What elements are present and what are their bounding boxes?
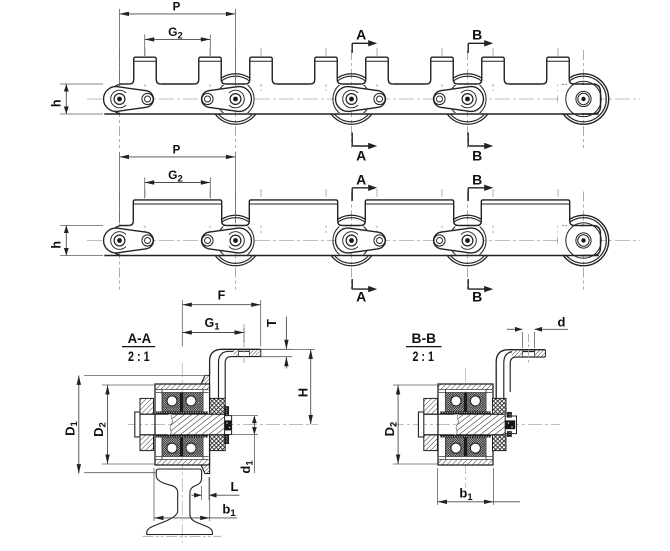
chain 2 left plate end cap <box>109 226 121 256</box>
chain 1 end roller (full circles) <box>558 74 608 124</box>
dimension G2 <box>145 182 211 184</box>
B-B left spacer <box>424 398 438 414</box>
A-A bracket tab end <box>260 349 262 356</box>
roller inside plates <box>217 80 254 117</box>
B-B attachment bracket outer curve <box>496 350 545 399</box>
A-A race lines <box>156 389 209 391</box>
A-A wheel rim top band <box>155 384 210 390</box>
B-B axle sectioned right part <box>456 414 505 435</box>
A-A top bearing balls <box>167 396 177 406</box>
chain 1 end roller front <box>566 81 601 116</box>
section marker B <box>467 43 469 53</box>
A-A axle left end cap <box>135 412 140 437</box>
chain 2 pins <box>111 232 126 250</box>
roller inside plates <box>449 222 486 259</box>
B-B cotter pin block <box>505 420 515 429</box>
svg-text:P: P <box>173 145 181 157</box>
B-B race lines <box>439 389 492 391</box>
dimension b1 (A-A) <box>153 468 155 521</box>
dimension P <box>120 156 236 158</box>
B-B bracket tab end <box>544 350 546 357</box>
svg-text:A: A <box>356 288 366 304</box>
chain 1 cranked inner plates <box>104 87 154 112</box>
A-A right spacer (cross-hatched) <box>210 398 226 414</box>
B-B top bearing <box>446 393 487 412</box>
B-B axle left end cap <box>418 412 423 437</box>
chain 2 pin centerlines <box>119 192 121 290</box>
B-B tab hole centerline <box>528 334 530 363</box>
section marker B <box>467 133 469 147</box>
dimension G2 <box>145 38 211 40</box>
svg-text:2 : 1: 2 : 1 <box>128 349 150 364</box>
dimension b1 (B-B) <box>437 468 439 505</box>
dimension d1 <box>232 415 258 417</box>
B-B wheel outline <box>438 384 493 465</box>
svg-text:2 : 1: 2 : 1 <box>412 349 434 364</box>
section marker B <box>467 188 469 201</box>
dimension D2 <box>102 384 154 386</box>
A-A wheel outline <box>155 384 210 465</box>
chain 1 right plate end cap <box>581 84 601 114</box>
chain 2 end roller (full circles) <box>558 215 608 265</box>
dimension d <box>522 332 524 348</box>
B-B axle end stub <box>505 416 516 434</box>
svg-text:T: T <box>264 319 279 327</box>
dimension P <box>120 13 236 15</box>
svg-text:B: B <box>472 288 482 304</box>
B-B bottom bearing <box>446 438 487 457</box>
A-A cotter pin block <box>225 420 232 430</box>
chain 2 cranked inner plates <box>104 228 154 253</box>
chain 2 end roller front <box>566 223 601 258</box>
dimension H <box>261 348 315 350</box>
A-A attachment bracket middle curve <box>219 351 261 398</box>
chain 1 large roller flange arcs <box>222 74 250 78</box>
B-B bracket tab hatch <box>512 351 523 357</box>
A-A bottom bearing <box>162 438 203 457</box>
A-A rail <box>147 469 213 535</box>
svg-text:A: A <box>356 27 366 43</box>
dimension L <box>201 486 203 500</box>
svg-text:A: A <box>356 148 366 164</box>
A-A left spacer <box>140 398 154 414</box>
svg-text:A-A: A-A <box>128 331 152 346</box>
B-B bush knurled bands <box>440 412 491 415</box>
chain 1 pins <box>111 90 126 108</box>
section marker A <box>351 43 353 53</box>
A-A attachment bracket outer curve <box>210 349 261 375</box>
A-A top bearing <box>162 393 203 412</box>
chain 1 attachments <box>129 57 161 84</box>
A-A bracket tab hatch <box>234 350 239 356</box>
A-A tab hole centerline <box>243 324 245 365</box>
B-B axle <box>424 413 455 415</box>
A-A bush knurled bands <box>156 412 208 415</box>
chain 1 end link plate body <box>558 85 601 114</box>
rail base centerline <box>143 535 222 537</box>
chain 2 large roller flange arcs <box>222 215 250 219</box>
A-A tab hole edges <box>238 349 240 356</box>
A-A flange bottom hump <box>201 465 210 474</box>
A-A axle <box>140 413 169 415</box>
chain 1 pin centerlines <box>119 50 121 148</box>
B-B wheel rim top band <box>438 384 493 390</box>
dimension h <box>60 225 103 227</box>
chain 2 horizontal centerline <box>87 240 640 242</box>
roller inside plates <box>333 222 370 259</box>
A-A flange top hump <box>201 375 210 384</box>
svg-text:B: B <box>472 27 482 43</box>
dimension D2 (B-B) <box>393 384 437 386</box>
B-B wheel rim bottom band <box>438 460 493 466</box>
dimension T <box>261 348 293 350</box>
svg-text:d: d <box>558 315 566 330</box>
B-B centerlines <box>390 424 560 426</box>
chain 1 left plate end cap <box>109 84 121 114</box>
roller inside plates <box>333 80 370 117</box>
dimension D1 <box>84 374 208 376</box>
chain 1 attachment hole centerlines <box>144 48 146 91</box>
chain 1 horizontal centerline <box>87 98 640 100</box>
svg-text:P: P <box>173 2 181 14</box>
svg-text:A: A <box>356 171 366 187</box>
roller inside plates <box>217 222 254 259</box>
section marker A <box>351 279 353 289</box>
B-B retainer rings <box>507 412 511 417</box>
B-B tab hole edges <box>522 350 524 357</box>
A-A centerlines <box>128 424 318 426</box>
chain 2 link plate band <box>120 225 129 227</box>
dimension G1 <box>182 332 244 334</box>
A-A bottom bearing balls <box>167 443 177 453</box>
svg-text:H: H <box>296 388 311 397</box>
roller inside plates <box>449 80 486 117</box>
svg-text:h: h <box>50 241 64 249</box>
A-A axle sectioned right part <box>170 414 224 435</box>
svg-text:h: h <box>50 99 64 107</box>
chain 2 right plate end cap <box>581 226 601 256</box>
chain 2 end link plate body <box>558 226 601 255</box>
chain 2 attachment hole centerlines <box>144 189 146 233</box>
chain 1 bush holes <box>142 93 153 104</box>
A-A axle end stub <box>225 416 232 435</box>
B-B attachment bracket middle curve <box>504 352 546 399</box>
A-A retainer rings <box>225 407 229 416</box>
svg-text:B: B <box>472 148 482 164</box>
section marker A <box>351 188 353 201</box>
dimension h <box>60 83 103 85</box>
chain 2 attachments <box>129 200 226 226</box>
section marker A <box>351 133 353 147</box>
chain 2 bush holes <box>142 235 153 246</box>
svg-text:B-B: B-B <box>412 331 437 346</box>
dimension F <box>182 304 260 306</box>
chain 1 link plate band <box>120 83 130 85</box>
svg-text:B: B <box>472 171 482 187</box>
B-B right spacer (cross-hatched) <box>493 398 507 414</box>
B-B attachment bracket inner curve <box>510 357 545 392</box>
A-A attachment bracket inner curve <box>225 357 261 399</box>
A-A wheel rim bottom band <box>155 460 210 466</box>
section marker B <box>467 279 469 289</box>
svg-text:L: L <box>231 479 239 494</box>
svg-text:F: F <box>218 289 226 303</box>
B-B bearing balls <box>451 396 461 406</box>
